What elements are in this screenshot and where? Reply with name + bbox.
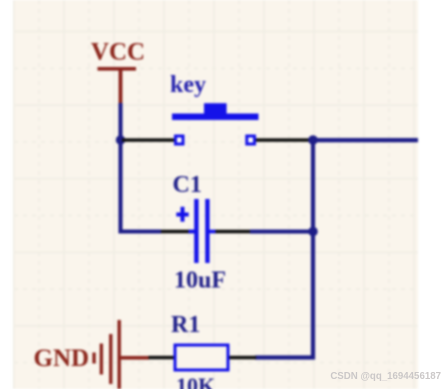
value 10K [176, 373, 215, 389]
svg-text:10uF: 10uF [174, 268, 226, 294]
svg-text:CSDN @qq_1694456187: CSDN @qq_1694456187 [330, 371, 441, 382]
designator R1 [171, 312, 200, 338]
wire right vertical to resistor [255, 138, 313, 358]
switch key body [172, 103, 259, 144]
svg-text:R1: R1 [171, 312, 200, 338]
svg-text:VCC: VCC [91, 39, 145, 66]
junction node at VCC/key [116, 135, 125, 144]
wire ground to resistor [121, 356, 149, 360]
wire capacitor right to junction [250, 230, 313, 234]
power symbol VCC [91, 39, 145, 105]
ground symbol GND [92, 320, 121, 389]
resistor R1 pin left [149, 356, 175, 360]
junction node right top [308, 135, 318, 145]
svg-text:10K: 10K [176, 373, 215, 389]
svg-text:GND: GND [34, 345, 90, 372]
designator C1 [173, 172, 202, 198]
capacitor C1 pin left [161, 230, 195, 234]
watermark [330, 371, 441, 382]
switch key pin left [122, 138, 175, 142]
capacitor C1 pin right [215, 230, 250, 234]
wire top right [313, 138, 418, 142]
svg-text:key: key [170, 72, 206, 98]
switch key pin right [256, 138, 310, 142]
label GND [34, 345, 90, 372]
capacitor C1 body [176, 199, 215, 263]
resistor R1 pin right [230, 356, 257, 360]
svg-text:C1: C1 [173, 172, 202, 198]
junction node right middle [308, 227, 318, 237]
resistor R1 body [175, 345, 228, 370]
wire VCC to capacitor left [121, 103, 162, 232]
value 10uF [174, 268, 226, 294]
label key [170, 72, 206, 98]
